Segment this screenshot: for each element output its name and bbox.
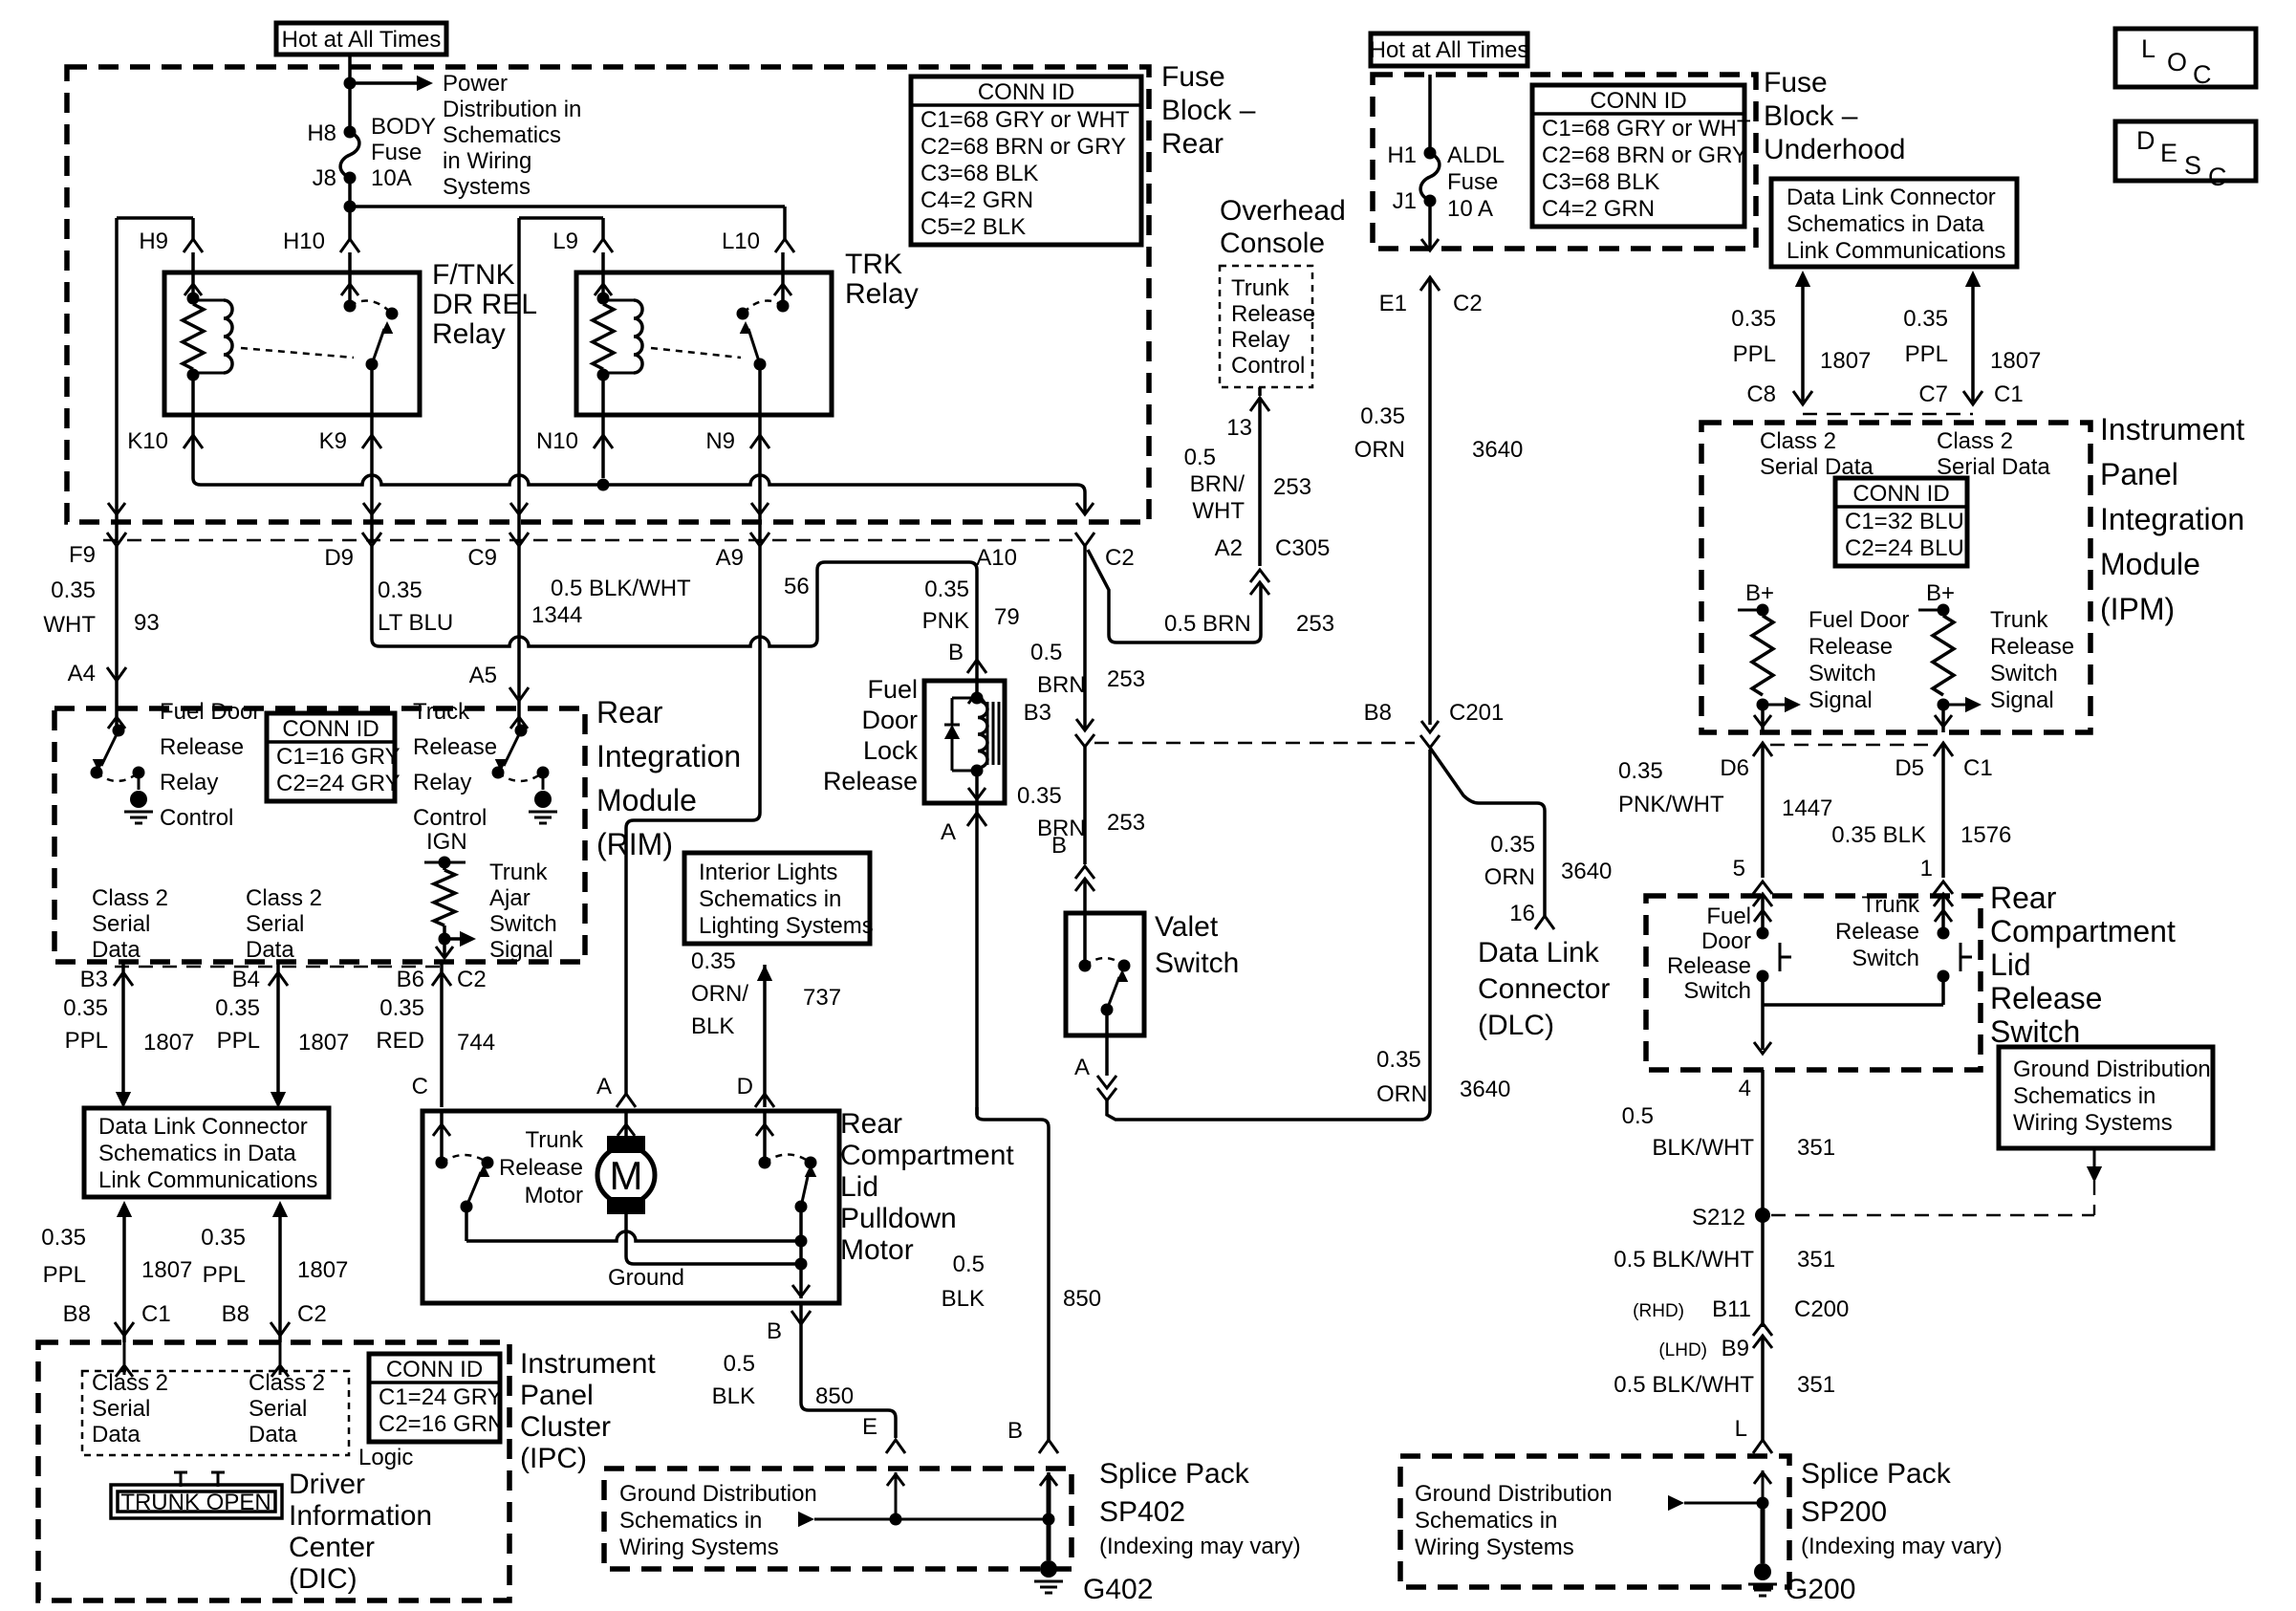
svg-text:Relay: Relay <box>1231 327 1289 353</box>
svg-text:253: 253 <box>1296 611 1334 637</box>
svg-text:0.5 BLK/WHT: 0.5 BLK/WHT <box>551 576 691 601</box>
svg-text:Class 2: Class 2 <box>1937 428 2013 454</box>
svg-text:BODY: BODY <box>371 114 436 140</box>
svg-text:0.35: 0.35 <box>1017 783 1062 809</box>
svg-text:TRUNK OPEN: TRUNK OPEN <box>120 1490 271 1515</box>
svg-text:Class 2: Class 2 <box>246 885 322 911</box>
svg-text:C: C <box>2193 60 2212 89</box>
svg-text:Relay: Relay <box>413 770 471 795</box>
svg-text:(DLC): (DLC) <box>1478 1010 1554 1041</box>
svg-text:0.35: 0.35 <box>924 577 969 602</box>
svg-text:351: 351 <box>1797 1372 1835 1398</box>
svg-text:N10: N10 <box>536 428 578 454</box>
svg-text:C4=2 GRN: C4=2 GRN <box>1542 196 1655 222</box>
svg-text:C2=68 BRN or GRY: C2=68 BRN or GRY <box>1542 142 1747 168</box>
svg-text:B: B <box>767 1318 782 1344</box>
svg-text:0.35: 0.35 <box>378 577 422 603</box>
svg-text:B8: B8 <box>222 1301 249 1327</box>
svg-text:10 A: 10 A <box>1447 196 1493 222</box>
svg-text:253: 253 <box>1107 810 1145 836</box>
svg-text:H9: H9 <box>139 229 168 254</box>
svg-text:Fuel: Fuel <box>1706 903 1751 929</box>
svg-text:0.35: 0.35 <box>1376 1047 1421 1073</box>
svg-text:Door: Door <box>1701 928 1751 954</box>
svg-text:Schematics in Data: Schematics in Data <box>98 1141 296 1166</box>
svg-text:Fuel Door: Fuel Door <box>160 699 260 725</box>
svg-text:Module: Module <box>2100 547 2200 581</box>
svg-text:Ground Distribution: Ground Distribution <box>2013 1056 2211 1082</box>
svg-text:Rear: Rear <box>1161 128 1224 160</box>
svg-text:A: A <box>941 819 956 845</box>
svg-text:Relay: Relay <box>845 278 919 310</box>
svg-text:0.35: 0.35 <box>51 577 96 603</box>
svg-text:(IPM): (IPM) <box>2100 592 2175 626</box>
svg-text:H1: H1 <box>1387 142 1417 168</box>
svg-text:Hot at All Times: Hot at All Times <box>1370 37 1529 63</box>
svg-text:ALDL: ALDL <box>1447 142 1505 168</box>
svg-text:K10: K10 <box>127 428 168 454</box>
svg-text:C5=2 BLK: C5=2 BLK <box>921 214 1026 240</box>
svg-text:0.35: 0.35 <box>215 995 260 1021</box>
svg-text:Link Communications: Link Communications <box>1787 238 2005 264</box>
svg-text:Integration: Integration <box>596 739 741 773</box>
svg-text:Serial: Serial <box>92 911 150 937</box>
svg-text:H10: H10 <box>283 229 325 254</box>
svg-text:0.5: 0.5 <box>724 1351 755 1377</box>
svg-text:PPL: PPL <box>1733 341 1776 367</box>
svg-text:Wiring Systems: Wiring Systems <box>619 1535 779 1560</box>
svg-text:1807: 1807 <box>297 1257 348 1283</box>
svg-text:PPL: PPL <box>65 1028 108 1054</box>
svg-text:(IPC): (IPC) <box>520 1443 587 1474</box>
svg-text:Distribution in: Distribution in <box>443 97 581 122</box>
svg-text:PNK/WHT: PNK/WHT <box>1618 792 1724 817</box>
svg-text:1447: 1447 <box>1782 795 1832 821</box>
svg-text:PNK: PNK <box>922 608 969 634</box>
svg-text:Trunk: Trunk <box>1990 607 2048 633</box>
svg-text:Rear: Rear <box>596 695 663 729</box>
svg-text:SP402: SP402 <box>1099 1496 1185 1528</box>
svg-text:Relay: Relay <box>160 770 218 795</box>
svg-text:0.35: 0.35 <box>1360 403 1405 429</box>
svg-text:Switch: Switch <box>489 911 557 937</box>
svg-text:L9: L9 <box>552 229 578 254</box>
svg-text:351: 351 <box>1797 1135 1835 1161</box>
svg-text:CONN ID: CONN ID <box>386 1357 483 1382</box>
svg-text:C8: C8 <box>1746 381 1776 407</box>
svg-text:Signal: Signal <box>1990 687 2054 713</box>
svg-text:Driver: Driver <box>289 1469 365 1500</box>
svg-text:N9: N9 <box>705 428 735 454</box>
svg-text:Control: Control <box>1231 353 1305 379</box>
svg-text:1344: 1344 <box>531 602 582 628</box>
svg-text:BLK/WHT: BLK/WHT <box>1652 1135 1754 1161</box>
svg-text:WHT: WHT <box>43 612 96 638</box>
svg-text:Serial Data: Serial Data <box>1937 454 2050 480</box>
svg-text:Release: Release <box>1667 953 1751 979</box>
svg-text:Module: Module <box>596 783 697 817</box>
svg-text:B11: B11 <box>1712 1296 1751 1322</box>
svg-text:L: L <box>2141 34 2155 63</box>
svg-text:Ground Distribution: Ground Distribution <box>1415 1481 1613 1507</box>
svg-text:79: 79 <box>994 604 1020 630</box>
svg-text:BRN/: BRN/ <box>1190 471 1245 497</box>
svg-text:Schematics in: Schematics in <box>1415 1508 1557 1534</box>
svg-text:Data: Data <box>246 937 294 963</box>
svg-text:K9: K9 <box>319 428 347 454</box>
svg-text:0.5: 0.5 <box>1184 445 1216 470</box>
svg-text:Center: Center <box>289 1532 375 1563</box>
svg-text:Cluster: Cluster <box>520 1411 611 1443</box>
svg-text:E: E <box>2160 139 2177 167</box>
svg-text:DR REL: DR REL <box>432 289 537 320</box>
svg-text:0.5 BLK/WHT: 0.5 BLK/WHT <box>1614 1247 1754 1273</box>
svg-text:Class 2: Class 2 <box>92 885 168 911</box>
svg-text:Motor: Motor <box>525 1183 583 1208</box>
svg-text:C4=2 GRN: C4=2 GRN <box>921 187 1033 213</box>
svg-text:Release: Release <box>413 734 497 760</box>
svg-text:Release: Release <box>1809 634 1893 660</box>
svg-text:Serial: Serial <box>92 1396 150 1422</box>
svg-text:PPL: PPL <box>203 1262 246 1288</box>
svg-text:0.5: 0.5 <box>1622 1103 1654 1129</box>
svg-text:Power: Power <box>443 71 508 97</box>
svg-text:BRN: BRN <box>1037 672 1086 698</box>
svg-text:C1=68 GRY or WHT: C1=68 GRY or WHT <box>921 107 1130 133</box>
svg-text:D: D <box>737 1074 753 1099</box>
svg-text:Truck: Truck <box>413 699 470 725</box>
svg-text:Control: Control <box>413 805 487 831</box>
svg-text:A: A <box>1074 1055 1090 1080</box>
svg-text:F9: F9 <box>69 542 96 568</box>
svg-text:C305: C305 <box>1275 535 1330 561</box>
svg-text:A4: A4 <box>68 661 96 686</box>
svg-text:0.35: 0.35 <box>63 995 108 1021</box>
svg-text:Hot at All Times: Hot at All Times <box>282 27 442 53</box>
svg-text:O: O <box>2167 48 2187 76</box>
svg-text:CONN ID: CONN ID <box>978 79 1074 105</box>
svg-text:LT BLU: LT BLU <box>378 610 453 636</box>
svg-text:Class 2: Class 2 <box>92 1370 168 1396</box>
svg-text:C2: C2 <box>1453 291 1483 316</box>
svg-text:Rear: Rear <box>840 1108 902 1140</box>
svg-text:BLK: BLK <box>942 1286 985 1312</box>
svg-text:C3=68 BLK: C3=68 BLK <box>1542 169 1659 195</box>
svg-text:D6: D6 <box>1720 755 1749 781</box>
svg-text:0.35: 0.35 <box>41 1225 86 1251</box>
svg-text:C2=68 BRN or GRY: C2=68 BRN or GRY <box>921 134 1126 160</box>
svg-text:B+: B+ <box>1926 580 1955 606</box>
svg-text:Pulldown: Pulldown <box>840 1203 957 1234</box>
svg-text:C200: C200 <box>1794 1296 1849 1322</box>
svg-text:Block –: Block – <box>1161 95 1256 126</box>
svg-text:E: E <box>862 1414 877 1440</box>
svg-text:C1=68 GRY or WHT: C1=68 GRY or WHT <box>1542 116 1751 142</box>
svg-text:Overhead: Overhead <box>1220 195 1346 227</box>
svg-text:L: L <box>1735 1416 1747 1442</box>
svg-text:Lid: Lid <box>1990 947 2031 982</box>
svg-text:C2: C2 <box>1105 545 1135 571</box>
svg-text:Rear: Rear <box>1990 881 2057 915</box>
svg-text:Data Link Connector: Data Link Connector <box>98 1114 308 1140</box>
svg-text:3640: 3640 <box>1472 437 1523 463</box>
svg-text:Panel: Panel <box>2100 457 2178 491</box>
svg-text:Motor: Motor <box>840 1234 914 1266</box>
svg-text:Ground Distribution: Ground Distribution <box>619 1481 817 1507</box>
svg-text:Schematics in: Schematics in <box>2013 1083 2155 1109</box>
svg-text:0.35: 0.35 <box>1618 758 1663 784</box>
svg-text:Serial: Serial <box>246 911 304 937</box>
svg-text:Panel: Panel <box>520 1380 594 1411</box>
svg-text:Instrument: Instrument <box>2100 412 2244 446</box>
svg-text:253: 253 <box>1273 474 1311 500</box>
svg-text:1807: 1807 <box>141 1257 192 1283</box>
svg-text:TRK: TRK <box>845 249 902 280</box>
svg-text:Trunk: Trunk <box>1231 275 1289 301</box>
svg-text:Block –: Block – <box>1764 100 1858 132</box>
svg-text:WHT: WHT <box>1192 498 1245 524</box>
svg-text:IGN: IGN <box>426 829 467 855</box>
svg-text:Ground: Ground <box>608 1265 684 1291</box>
svg-text:CONN ID: CONN ID <box>1852 481 1949 507</box>
svg-text:C: C <box>2208 163 2227 191</box>
svg-text:(Indexing may vary): (Indexing may vary) <box>1801 1534 2003 1559</box>
svg-text:16: 16 <box>1509 901 1535 926</box>
svg-text:S: S <box>2184 151 2201 180</box>
svg-text:D5: D5 <box>1895 755 1924 781</box>
svg-text:A9: A9 <box>716 545 744 571</box>
svg-text:F/TNK: F/TNK <box>432 259 515 291</box>
svg-text:C: C <box>412 1074 428 1099</box>
svg-text:B: B <box>1007 1418 1023 1444</box>
svg-text:0.35 BLK: 0.35 BLK <box>1831 822 1926 848</box>
svg-text:1: 1 <box>1920 856 1933 882</box>
svg-text:C1: C1 <box>1994 381 2024 407</box>
svg-text:A10: A10 <box>976 545 1017 571</box>
svg-text:93: 93 <box>134 610 160 636</box>
svg-text:Class 2: Class 2 <box>1760 428 1836 454</box>
svg-text:Lighting Systems: Lighting Systems <box>699 913 874 939</box>
svg-text:(LHD): (LHD) <box>1658 1340 1707 1361</box>
svg-text:Fuse: Fuse <box>1447 169 1498 195</box>
svg-text:Data: Data <box>92 1422 141 1448</box>
svg-text:0.5 BLK/WHT: 0.5 BLK/WHT <box>1614 1372 1754 1398</box>
svg-text:C1: C1 <box>1963 755 1993 781</box>
svg-text:Release: Release <box>823 767 918 795</box>
svg-text:(Indexing may vary): (Indexing may vary) <box>1099 1534 1301 1559</box>
svg-text:G200: G200 <box>1786 1574 1855 1605</box>
svg-text:E1: E1 <box>1379 291 1407 316</box>
svg-text:PPL: PPL <box>43 1262 86 1288</box>
svg-text:G402: G402 <box>1083 1574 1153 1605</box>
svg-text:Fuse: Fuse <box>1161 61 1225 93</box>
svg-text:Logic: Logic <box>358 1445 413 1470</box>
svg-text:0.35: 0.35 <box>691 948 736 974</box>
svg-text:Schematics: Schematics <box>443 122 561 148</box>
svg-text:3640: 3640 <box>1460 1077 1510 1102</box>
svg-text:PPL: PPL <box>217 1028 260 1054</box>
svg-text:0.35: 0.35 <box>379 995 424 1021</box>
svg-text:B+: B+ <box>1745 580 1774 606</box>
svg-text:Information: Information <box>289 1500 432 1532</box>
svg-text:Splice Pack: Splice Pack <box>1801 1458 1952 1490</box>
svg-text:0.35: 0.35 <box>1903 306 1948 332</box>
svg-text:0.5: 0.5 <box>953 1252 985 1277</box>
svg-text:0.35: 0.35 <box>1490 832 1535 858</box>
svg-text:Trunk: Trunk <box>489 860 548 885</box>
svg-text:Schematics in: Schematics in <box>619 1508 762 1534</box>
svg-text:5: 5 <box>1733 856 1745 882</box>
svg-text:Systems: Systems <box>443 174 531 200</box>
svg-text:C1: C1 <box>141 1301 171 1327</box>
svg-text:A2: A2 <box>1215 535 1243 561</box>
svg-text:Fuel Door: Fuel Door <box>1809 607 1909 633</box>
svg-text:0.5 BRN: 0.5 BRN <box>1164 611 1251 637</box>
svg-text:B9: B9 <box>1722 1336 1749 1361</box>
svg-text:Schematics in: Schematics in <box>699 886 841 912</box>
svg-text:ORN: ORN <box>1484 864 1535 890</box>
svg-text:D: D <box>2136 126 2155 155</box>
svg-text:Release: Release <box>160 734 244 760</box>
svg-text:253: 253 <box>1107 666 1145 692</box>
svg-text:C201: C201 <box>1449 700 1504 726</box>
svg-text:0.35: 0.35 <box>1731 306 1776 332</box>
svg-text:Signal: Signal <box>489 937 553 963</box>
svg-text:in Wiring: in Wiring <box>443 148 531 174</box>
svg-text:Fuse: Fuse <box>371 140 422 165</box>
svg-text:Switch: Switch <box>1990 661 2058 686</box>
svg-text:Release: Release <box>1990 634 2074 660</box>
svg-text:Release: Release <box>1835 919 1919 945</box>
svg-text:J1: J1 <box>1393 188 1417 214</box>
svg-text:Underhood: Underhood <box>1764 134 1905 165</box>
svg-text:1807: 1807 <box>143 1030 194 1056</box>
svg-text:13: 13 <box>1226 415 1252 441</box>
svg-text:56: 56 <box>784 574 810 599</box>
svg-text:Link Communications: Link Communications <box>98 1167 317 1193</box>
svg-text:Signal: Signal <box>1809 687 1873 713</box>
svg-text:L10: L10 <box>722 229 760 254</box>
svg-text:1807: 1807 <box>1820 348 1871 374</box>
svg-text:C2=24 BLU: C2=24 BLU <box>1845 535 1964 561</box>
svg-text:B3: B3 <box>1024 700 1051 726</box>
svg-text:Compartment: Compartment <box>840 1140 1014 1171</box>
svg-text:Lid: Lid <box>840 1171 878 1203</box>
svg-text:Data Link Connector: Data Link Connector <box>1787 185 1996 210</box>
svg-text:Release: Release <box>1231 301 1315 327</box>
svg-text:BLK: BLK <box>691 1013 734 1039</box>
svg-text:Switch: Switch <box>1155 947 1239 979</box>
svg-text:C7: C7 <box>1918 381 1948 407</box>
svg-text:RED: RED <box>376 1028 424 1054</box>
svg-text:Fuel: Fuel <box>867 675 918 704</box>
svg-text:(DIC): (DIC) <box>289 1563 357 1595</box>
svg-text:B: B <box>948 640 964 665</box>
svg-text:Switch: Switch <box>1990 1014 2080 1049</box>
svg-text:ORN: ORN <box>1354 437 1405 463</box>
svg-text:Wiring Systems: Wiring Systems <box>1415 1535 1574 1560</box>
svg-text:850: 850 <box>1063 1286 1101 1312</box>
svg-text:PPL: PPL <box>1905 341 1948 367</box>
svg-text:C1=16 GRY: C1=16 GRY <box>276 744 401 770</box>
svg-text:Trunk: Trunk <box>526 1127 584 1153</box>
svg-text:(RIM): (RIM) <box>596 827 673 861</box>
svg-text:ORN: ORN <box>1376 1081 1427 1107</box>
svg-text:B4: B4 <box>232 967 260 992</box>
svg-text:B: B <box>1051 833 1067 859</box>
svg-text:Release: Release <box>1990 981 2102 1015</box>
svg-text:B8: B8 <box>1364 700 1392 726</box>
svg-text:Schematics in Data: Schematics in Data <box>1787 211 1984 237</box>
svg-text:C2: C2 <box>457 967 487 992</box>
svg-text:0.5: 0.5 <box>1030 640 1062 665</box>
svg-text:CONN ID: CONN ID <box>282 716 379 742</box>
svg-text:D9: D9 <box>324 545 354 571</box>
svg-text:850: 850 <box>815 1383 854 1409</box>
svg-text:737: 737 <box>803 985 841 1011</box>
svg-text:C2=24 GRY: C2=24 GRY <box>276 771 401 796</box>
svg-text:Switch: Switch <box>1809 661 1876 686</box>
svg-text:Trunk: Trunk <box>1862 892 1920 918</box>
svg-text:351: 351 <box>1797 1247 1835 1273</box>
svg-text:(RHD): (RHD) <box>1633 1301 1684 1321</box>
svg-text:Integration: Integration <box>2100 502 2244 536</box>
svg-text:Valet: Valet <box>1155 911 1219 943</box>
svg-text:Ajar: Ajar <box>489 885 531 911</box>
svg-text:Lock: Lock <box>863 736 919 765</box>
svg-text:CONN ID: CONN ID <box>1590 88 1686 114</box>
svg-text:10A: 10A <box>371 165 412 191</box>
svg-text:1807: 1807 <box>298 1030 349 1056</box>
svg-text:C1=24 GRY: C1=24 GRY <box>379 1384 503 1410</box>
svg-text:Serial: Serial <box>249 1396 307 1422</box>
svg-text:B6: B6 <box>397 967 424 992</box>
svg-text:Compartment: Compartment <box>1990 914 2176 948</box>
svg-text:C1=32 BLU: C1=32 BLU <box>1845 509 1964 534</box>
svg-text:1807: 1807 <box>1990 348 2041 374</box>
svg-text:SP200: SP200 <box>1801 1496 1887 1528</box>
svg-text:Instrument: Instrument <box>520 1348 656 1380</box>
svg-text:B3: B3 <box>80 967 108 992</box>
svg-text:Release: Release <box>499 1155 583 1181</box>
svg-text:J8: J8 <box>313 165 336 191</box>
svg-text:Connector: Connector <box>1478 973 1610 1005</box>
svg-text:BLK: BLK <box>712 1383 755 1409</box>
svg-text:M: M <box>610 1153 643 1198</box>
svg-text:A5: A5 <box>469 663 497 688</box>
svg-text:744: 744 <box>457 1030 495 1056</box>
svg-text:Splice Pack: Splice Pack <box>1099 1458 1250 1490</box>
svg-text:Data: Data <box>249 1422 297 1448</box>
svg-text:B8: B8 <box>63 1301 91 1327</box>
svg-text:C2: C2 <box>297 1301 327 1327</box>
svg-text:Wiring Systems: Wiring Systems <box>2013 1110 2173 1136</box>
svg-text:C3=68 BLK: C3=68 BLK <box>921 161 1038 186</box>
svg-text:C2=16 GRN: C2=16 GRN <box>379 1411 504 1437</box>
svg-text:Switch: Switch <box>1852 946 1919 971</box>
svg-text:Door: Door <box>861 706 918 734</box>
svg-text:Class 2: Class 2 <box>249 1370 325 1396</box>
svg-text:1576: 1576 <box>1960 822 2011 848</box>
svg-text:C9: C9 <box>467 545 497 571</box>
svg-text:Relay: Relay <box>432 318 506 350</box>
svg-text:S212: S212 <box>1692 1205 1745 1230</box>
svg-text:Console: Console <box>1220 228 1325 259</box>
svg-text:4: 4 <box>1739 1076 1751 1101</box>
svg-text:Data: Data <box>92 937 141 963</box>
svg-text:0.35: 0.35 <box>201 1225 246 1251</box>
svg-text:Serial Data: Serial Data <box>1760 454 1874 480</box>
